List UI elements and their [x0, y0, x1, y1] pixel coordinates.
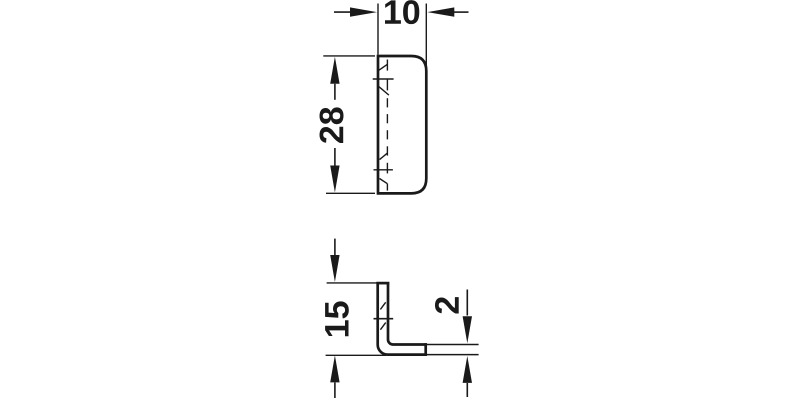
- label 2: [435, 297, 459, 313]
- label 28: [320, 107, 344, 143]
- top view part outline: [378, 56, 426, 193]
- side view L-profile: [376, 282, 427, 356]
- label 15: [325, 301, 349, 336]
- dimension 2 (thickness, right of side view): [427, 290, 479, 398]
- label 10: [385, 0, 419, 24]
- serration centerline (dashed) with teeth marks: [373, 60, 394, 191]
- leg serration marks: [374, 302, 394, 329]
- dimension 10 (width, top): [334, 4, 469, 71]
- dimension 28 (height, left of top view): [323, 56, 375, 193]
- dimension 15 (height, left of side view): [326, 239, 387, 398]
